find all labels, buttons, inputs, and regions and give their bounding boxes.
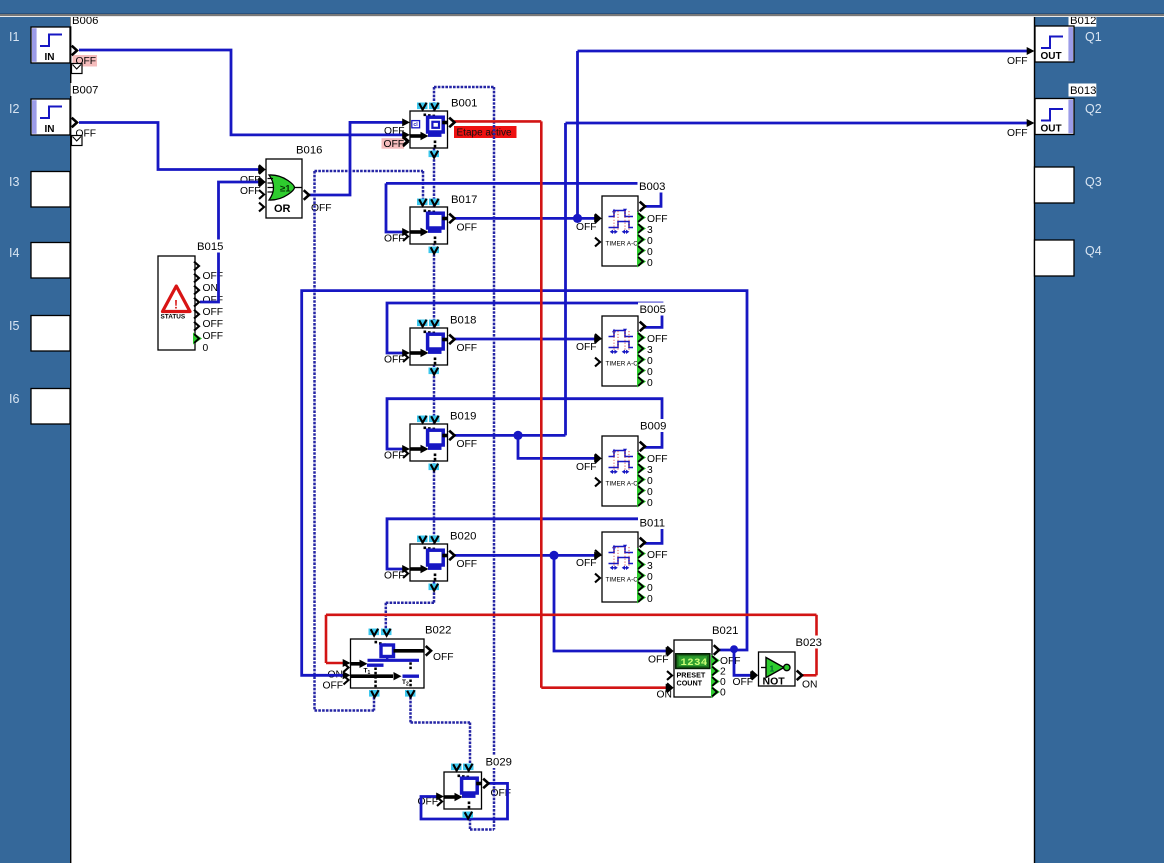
- svg-text:OFF: OFF: [203, 307, 224, 318]
- svg-text:1: 1: [770, 664, 775, 674]
- left sidebar: [0, 14, 70, 863]
- label B017: [450, 193, 478, 206]
- TIMER A-C block B003: [595, 196, 646, 268]
- svg-text:0: 0: [647, 583, 653, 594]
- svg-text:B023: B023: [796, 637, 822, 649]
- SFC step block B018: [403, 320, 455, 375]
- label B018: [449, 313, 477, 326]
- SFC step block B017: [403, 199, 455, 254]
- wire dashed jog to B022 top-right: [386, 602, 434, 605]
- svg-text:0: 0: [647, 498, 653, 509]
- svg-text:OFF: OFF: [647, 550, 668, 561]
- svg-text:OFF: OFF: [576, 342, 597, 353]
- node junction B019: [513, 431, 522, 440]
- label B007: [71, 83, 99, 96]
- svg-text:3: 3: [647, 465, 653, 476]
- value label I1 OFF (highlighted): [73, 55, 98, 67]
- label B005: [638, 303, 666, 316]
- label B012: [1069, 14, 1097, 27]
- svg-text:IN: IN: [45, 124, 55, 135]
- wire B009 output to B019 input2: [387, 399, 662, 449]
- svg-text:B015: B015: [197, 241, 223, 253]
- svg-text:ON: ON: [203, 283, 218, 294]
- svg-text:B029: B029: [486, 757, 512, 769]
- right sidebar: [1035, 14, 1164, 863]
- envelope icon I1: [72, 64, 83, 74]
- svg-text:OUT: OUT: [1041, 124, 1062, 135]
- svg-text:OFF: OFF: [384, 451, 405, 462]
- svg-text:OFF: OFF: [203, 271, 224, 282]
- svg-text:B011: B011: [640, 518, 666, 530]
- SFC step block B029: [437, 764, 489, 819]
- svg-text:0: 0: [647, 356, 653, 367]
- label B021: [711, 624, 739, 637]
- empty input slot I6: [31, 389, 70, 425]
- SFC divergence block B022: [344, 629, 432, 698]
- wire dashed SFC chain B001-B017-B018-B019-B020: [433, 87, 436, 603]
- svg-text:cl: cl: [413, 122, 418, 128]
- svg-text:0: 0: [647, 236, 653, 247]
- svg-text:OFF: OFF: [457, 343, 478, 354]
- wire red to B022 input1: [325, 615, 328, 663]
- svg-text:≥1: ≥1: [280, 184, 291, 195]
- TIMER A-C block B011: [595, 532, 646, 604]
- svg-text:TIMER A-C: TIMER A-C: [606, 577, 639, 584]
- svg-text:IN: IN: [45, 52, 55, 63]
- digital input block I1 / B006: [31, 27, 77, 63]
- digital input block I2 / B007: [31, 99, 77, 135]
- wire dashed B022 left branch loop to B017: [373, 697, 376, 711]
- svg-text:ON: ON: [802, 680, 817, 691]
- svg-text:B013: B013: [1070, 85, 1096, 97]
- wire B019 output to junction and B009 input1: [454, 434, 566, 437]
- svg-text:OFF: OFF: [457, 223, 478, 234]
- svg-text:Q1: Q1: [1085, 30, 1102, 44]
- OR gate B016: [259, 159, 309, 218]
- svg-text:0: 0: [647, 594, 653, 605]
- wire B018 output to B005 input1: [454, 338, 596, 341]
- svg-text:TIMER A-C: TIMER A-C: [606, 361, 639, 368]
- svg-text:NOT: NOT: [763, 676, 786, 688]
- svg-text:I3: I3: [9, 175, 19, 189]
- svg-text:3: 3: [647, 561, 653, 572]
- label B023: [794, 636, 822, 649]
- svg-text:I1: I1: [9, 30, 19, 44]
- svg-text:1234: 1234: [681, 657, 708, 669]
- canvas border lines: [70, 17, 72, 863]
- SFC step block B019: [403, 416, 455, 471]
- svg-text:2: 2: [406, 682, 409, 688]
- svg-text:B016: B016: [296, 145, 322, 157]
- svg-text:B003: B003: [639, 181, 665, 193]
- svg-text:B001: B001: [451, 98, 477, 110]
- wire red from B023 output: [801, 674, 817, 677]
- svg-text:OFF: OFF: [240, 186, 261, 197]
- wire B015 output4 to B016 input2: [200, 182, 259, 302]
- svg-text:!: !: [174, 298, 178, 312]
- svg-text:I4: I4: [9, 246, 19, 260]
- svg-text:B022: B022: [425, 625, 451, 637]
- svg-text:0: 0: [203, 343, 209, 354]
- wire B005 output to B018 input2: [387, 303, 662, 353]
- empty input slot I3: [31, 172, 70, 208]
- svg-text:OFF: OFF: [648, 655, 669, 666]
- envelope icon I2: [72, 136, 83, 146]
- svg-text:0: 0: [647, 572, 653, 583]
- label B011: [638, 516, 666, 529]
- label B009: [639, 419, 667, 432]
- svg-text:OFF: OFF: [647, 454, 668, 465]
- svg-text:B007: B007: [72, 85, 98, 97]
- wire B003 output to B017 input2: [644, 183, 661, 206]
- wire red horizontal main: [326, 613, 817, 616]
- svg-text:TIMER A-C: TIMER A-C: [606, 481, 639, 488]
- empty output slot Q4: [1035, 240, 1075, 276]
- wire B021 junction to B023 input: [734, 650, 751, 675]
- wire B029 feedback loop: [421, 783, 508, 819]
- svg-text:OFF: OFF: [576, 558, 597, 569]
- B001 extra input chevron: [403, 138, 408, 147]
- wire red vertical B001 down: [540, 121, 543, 687]
- svg-text:OFF: OFF: [384, 234, 405, 245]
- svg-text:OFF: OFF: [720, 656, 741, 667]
- wire dashed B029 bottom return: [470, 828, 494, 831]
- label B006: [71, 13, 99, 26]
- svg-text:OUT: OUT: [1041, 51, 1062, 62]
- wire B016 output to B001 input1: [308, 122, 403, 195]
- svg-text:0: 0: [647, 487, 653, 498]
- svg-text:OFF: OFF: [240, 175, 261, 186]
- wire red to B021 input3: [541, 686, 666, 689]
- svg-text:OFF: OFF: [647, 214, 668, 225]
- wire I1 to B001 input2: [79, 50, 403, 135]
- svg-text:B019: B019: [450, 411, 476, 423]
- wire I2 to B016 input1: [79, 123, 259, 170]
- wire B021 output loop to B022 input2: [302, 291, 747, 676]
- svg-text:2: 2: [720, 667, 726, 678]
- label B015: [196, 240, 224, 253]
- svg-text:I5: I5: [9, 319, 19, 333]
- svg-text:OFF: OFF: [323, 681, 344, 692]
- wire junction to B021 input1: [554, 555, 666, 651]
- digital output block Q1 / B012: [1035, 26, 1074, 62]
- label B003: [638, 180, 666, 193]
- svg-text:OFF: OFF: [384, 355, 405, 366]
- svg-text:OFF: OFF: [203, 319, 224, 330]
- svg-text:0: 0: [720, 688, 726, 699]
- svg-text:0: 0: [647, 378, 653, 389]
- label B016: [295, 143, 323, 156]
- svg-text:B021: B021: [712, 625, 738, 637]
- svg-text:Q4: Q4: [1085, 244, 1102, 258]
- PRESET COUNT block B021: [667, 640, 720, 698]
- svg-text:Q3: Q3: [1085, 175, 1102, 189]
- label B020: [449, 529, 477, 542]
- svg-text:OFF: OFF: [457, 559, 478, 570]
- value label B001 input2 (highlighted): [382, 138, 405, 149]
- svg-text:OFF: OFF: [384, 571, 405, 582]
- svg-text:B017: B017: [451, 194, 477, 206]
- wire red B001 output Etape active: [453, 120, 541, 123]
- label Etape active (red): [454, 126, 517, 138]
- node junction B017/Q1: [573, 214, 582, 223]
- wire dashed top horizontal B029 loop to B001: [434, 86, 494, 89]
- svg-text:COUNT: COUNT: [677, 679, 703, 688]
- wire dashed B022 right branch to B029: [409, 697, 412, 723]
- empty output slot Q3: [1035, 167, 1075, 203]
- empty input slot I4: [31, 243, 70, 279]
- digital output block Q2 / B013: [1035, 99, 1074, 135]
- svg-text:TIMER A-C: TIMER A-C: [606, 241, 639, 248]
- svg-text:0: 0: [720, 677, 726, 688]
- wire B017 output to B003 input1: [454, 217, 596, 220]
- svg-text:0: 0: [647, 247, 653, 258]
- label B013: [1069, 84, 1097, 97]
- svg-text:OFF: OFF: [203, 295, 224, 306]
- wire junction to Q1: [576, 51, 579, 218]
- wire B020 output to B011 input1: [454, 554, 596, 557]
- wire B011 output to B020 input2: [387, 519, 662, 569]
- empty input slot I5: [31, 316, 70, 352]
- wire dashed long vertical B029 loop right: [493, 87, 496, 830]
- NOT gate B023: [752, 652, 803, 688]
- svg-text:3: 3: [647, 225, 653, 236]
- svg-text:I6: I6: [9, 392, 19, 406]
- svg-text:Etape active: Etape active: [457, 128, 512, 139]
- svg-text:OFF: OFF: [457, 439, 478, 450]
- STATUS block B015: [158, 256, 202, 350]
- B001 cl badge: [412, 121, 420, 128]
- svg-text:OFF: OFF: [576, 222, 597, 233]
- label B022: [424, 623, 452, 636]
- svg-text:OFF: OFF: [647, 334, 668, 345]
- svg-text:OFF: OFF: [576, 462, 597, 473]
- label B001: [450, 96, 478, 109]
- svg-text:OFF: OFF: [433, 652, 454, 663]
- TIMER A-C block B009: [595, 436, 646, 508]
- svg-text:0: 0: [647, 258, 653, 269]
- svg-text:OR: OR: [274, 203, 291, 215]
- wire junction to Q2: [564, 123, 567, 435]
- svg-text:B009: B009: [640, 421, 666, 433]
- svg-text:B018: B018: [450, 315, 476, 327]
- node junction B021 output: [730, 645, 738, 653]
- svg-text:OFF: OFF: [384, 139, 405, 150]
- svg-text:STATUS: STATUS: [161, 314, 186, 321]
- svg-text:Q2: Q2: [1085, 102, 1102, 116]
- svg-text:OFF: OFF: [311, 203, 332, 214]
- svg-text:3: 3: [647, 345, 653, 356]
- label B019: [449, 409, 477, 422]
- svg-text:OFF: OFF: [1007, 56, 1028, 67]
- SFC step block B020: [403, 536, 455, 591]
- svg-text:OFF: OFF: [733, 677, 754, 688]
- TIMER A-C block B005: [595, 316, 646, 388]
- svg-text:I2: I2: [9, 102, 19, 116]
- svg-text:0: 0: [647, 476, 653, 487]
- label B029: [484, 755, 512, 768]
- SFC step block B001 (initial step): [403, 103, 455, 158]
- svg-text:B005: B005: [640, 304, 666, 316]
- svg-text:OFF: OFF: [1007, 128, 1028, 139]
- svg-text:OFF: OFF: [203, 331, 224, 342]
- svg-text:0: 0: [647, 367, 653, 378]
- node junction B020: [549, 551, 558, 560]
- svg-text:B020: B020: [450, 531, 476, 543]
